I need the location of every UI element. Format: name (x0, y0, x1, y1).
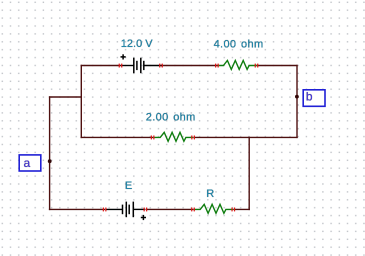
resistor R terminal marks (191, 208, 235, 212)
svg-text:4.00 ohm: 4.00 ohm (214, 39, 264, 51)
battery E plus sign (141, 215, 146, 220)
battery V1 terminal marks (119, 64, 163, 68)
wire: bottom right segment (234, 208, 249, 210)
battery E terminal marks (103, 208, 148, 212)
svg-text:b: b (306, 90, 313, 104)
wire: branch vertical from middle to bottom (248, 137, 250, 209)
resistor R (194, 204, 233, 213)
battery V1 plus sign (121, 54, 126, 59)
wire: bottom middle segment (147, 208, 193, 210)
wire: top left segment (81, 65, 121, 67)
svg-text:2.00 ohm: 2.00 ohm (146, 112, 196, 124)
wire: stub from node to left branch (50, 96, 82, 98)
resistor R1 4.00 ohm (217, 61, 257, 70)
svg-text:R: R (206, 188, 214, 200)
wire: left vertical of top loop (80, 66, 82, 138)
battery V1 12.0 V (122, 58, 162, 73)
wire: far left vertical (49, 97, 51, 209)
resistor R2 terminal marks (151, 136, 195, 140)
node a junction dot (48, 159, 52, 163)
battery E (106, 202, 146, 218)
terminal a box (19, 155, 41, 171)
terminal b box (303, 90, 325, 107)
svg-text:12.0 V: 12.0 V (121, 38, 153, 50)
resistor R2 2.00 ohm (153, 132, 193, 141)
resistor R1 terminal marks (215, 64, 258, 68)
wire: middle left segment (81, 136, 152, 138)
wire: bottom left segment (50, 208, 105, 210)
svg-text:E: E (125, 180, 132, 192)
wire: top right segment (257, 65, 297, 67)
svg-text:a: a (24, 156, 31, 170)
wire: right vertical (296, 66, 298, 138)
wire: top middle segment (162, 65, 218, 67)
node b junction dot (295, 95, 299, 99)
wire: middle right segment (194, 136, 297, 138)
